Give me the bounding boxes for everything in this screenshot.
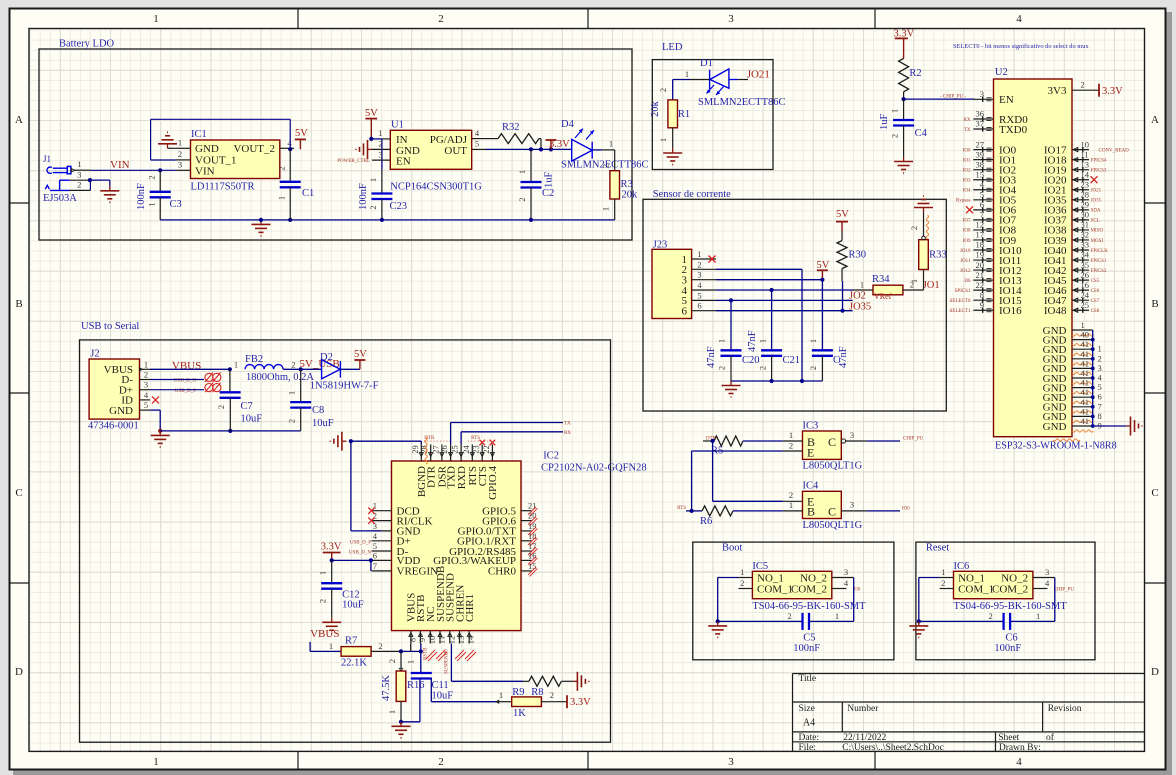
svg-text:1: 1 — [234, 360, 238, 370]
ground in button block — [717, 621, 719, 626]
svg-text:JO1: JO1 — [923, 280, 940, 291]
wire IC4 E cross — [712, 441, 714, 501]
IC2 pin 25 RXD — [460, 444, 462, 461]
svg-text:16: 16 — [1081, 280, 1090, 290]
no-ERC hatch at IC2 CHREN — [455, 650, 466, 661]
svg-text:3: 3 — [1098, 363, 1102, 373]
svg-text:IO10: IO10 — [960, 249, 971, 254]
svg-text:3: 3 — [850, 430, 854, 440]
node C2 rail — [529, 218, 533, 222]
resistor R7 22.1K — [309, 642, 311, 652]
U2 pin 2 3V3 — [1072, 89, 1099, 91]
differential pair marker D+ — [150, 389, 204, 391]
U2 pin 17 IO9 — [973, 239, 993, 241]
U2 pin 25 IO48 — [1072, 309, 1089, 311]
IC1 pin 1 GND — [176, 147, 191, 149]
svg-text:1: 1 — [153, 756, 159, 768]
IC4 pin 2 E — [783, 500, 803, 502]
svg-text:1: 1 — [77, 159, 81, 169]
IC2 pin 7 VREGIN — [372, 570, 392, 572]
svg-text:3: 3 — [728, 13, 734, 25]
ground in button block — [918, 621, 920, 626]
svg-text:COM_2: COM_2 — [992, 584, 1028, 596]
svg-text:4: 4 — [1045, 578, 1050, 588]
svg-text:6: 6 — [373, 550, 377, 560]
svg-text:5V: 5V — [365, 108, 378, 119]
svg-text:2: 2 — [378, 139, 382, 149]
svg-text:10: 10 — [1081, 139, 1090, 149]
svg-text:1: 1 — [697, 249, 701, 259]
svg-text:Drawn By:: Drawn By: — [999, 743, 1041, 753]
IC2 pin 21 GPIO.5 — [521, 510, 532, 512]
svg-text:IO2: IO2 — [963, 168, 971, 173]
J2 pin 5 — [140, 409, 151, 411]
node VOUT_2 — [288, 147, 292, 151]
IC2 pin 24 RTS — [471, 444, 473, 461]
usb ground rail — [160, 430, 301, 432]
svg-text:R6: R6 — [700, 516, 712, 527]
svg-text:C: C — [828, 505, 836, 519]
svg-text:USB_D_N: USB_D_N — [349, 551, 371, 556]
section USB to Serial — [80, 340, 611, 742]
svg-text:2: 2 — [787, 611, 791, 621]
resistor R8 zigzag — [529, 676, 562, 686]
svg-text:38: 38 — [976, 159, 985, 169]
squiggle at R33 pin2 — [926, 215, 928, 239]
svg-text:2: 2 — [438, 756, 444, 768]
svg-text:VOUT_2: VOUT_2 — [233, 143, 275, 155]
switch pin 2 — [940, 588, 954, 590]
svg-text:VIN: VIN — [195, 165, 215, 177]
U2 pin 28 IO35 — [1072, 199, 1089, 201]
svg-text:1: 1 — [609, 139, 613, 149]
U2 pin 38 IO2 — [973, 169, 993, 171]
svg-text:13: 13 — [1081, 159, 1090, 169]
svg-text:D: D — [15, 666, 23, 678]
svg-text:IC4: IC4 — [803, 481, 820, 492]
IC3 pin 1 B — [783, 440, 803, 442]
U1 pin 1 IN — [382, 138, 390, 140]
svg-text:6: 6 — [697, 301, 701, 311]
svg-text:3: 3 — [980, 89, 984, 99]
U2 pin 30 IO37 — [1072, 219, 1089, 221]
wire switch pin1 to ground — [718, 577, 739, 579]
svg-text:FPICLK: FPICLK — [1091, 249, 1109, 254]
capacitor C5 100nF — [801, 613, 803, 630]
no-ERC cross at J23 pin1 — [709, 256, 716, 263]
svg-text:Date:: Date: — [799, 733, 820, 743]
svg-text:3: 3 — [697, 270, 701, 280]
svg-text:1: 1 — [685, 69, 689, 79]
svg-text:R3: R3 — [621, 179, 633, 190]
power port 5V above U1 — [370, 119, 372, 139]
svg-text:3: 3 — [1045, 567, 1049, 577]
svg-text:21: 21 — [528, 501, 537, 511]
svg-text:1: 1 — [909, 279, 919, 283]
svg-text:41: 41 — [1081, 349, 1090, 359]
svg-text:41: 41 — [1081, 406, 1090, 416]
svg-text:2: 2 — [438, 13, 444, 25]
svg-text:CHR1: CHR1 — [464, 594, 476, 622]
svg-text:41: 41 — [1081, 368, 1090, 378]
svg-text:GND: GND — [109, 405, 133, 417]
wire J2 GND down — [150, 409, 160, 411]
power port 5V at D2 — [359, 360, 361, 369]
svg-text:D4: D4 — [561, 119, 575, 130]
svg-text:100nF: 100nF — [136, 183, 147, 210]
svg-text:B: B — [1151, 298, 1158, 310]
node C20 tap — [729, 298, 733, 302]
svg-text:2: 2 — [740, 578, 744, 588]
svg-text:IO11: IO11 — [960, 259, 971, 264]
svg-text:17: 17 — [976, 230, 985, 240]
svg-text:2: 2 — [77, 180, 81, 190]
svg-text:JO21: JO21 — [747, 68, 770, 80]
wire J23 pin6 — [716, 310, 853, 312]
svg-text:COM_1: COM_1 — [958, 584, 994, 596]
svg-text:CS5: CS5 — [1091, 279, 1100, 284]
no-ERC hatch at IC2 NC — [426, 650, 437, 661]
node OUT b — [539, 147, 543, 151]
svg-text:R7: R7 — [345, 636, 357, 647]
wire J23 pin4 to R34 — [716, 289, 853, 291]
U2 pin 31 IO38 — [1072, 229, 1089, 231]
svg-text:IO4: IO4 — [963, 189, 971, 194]
ground below R16 — [400, 722, 402, 727]
svg-text:12: 12 — [446, 636, 456, 645]
svg-text:47346-0001: 47346-0001 — [88, 421, 139, 432]
ground below sensor rail — [730, 381, 732, 386]
svg-text:23: 23 — [471, 445, 481, 454]
node C7 rail — [228, 429, 232, 433]
wire switch pin3 down — [1054, 578, 1056, 622]
svg-text:LED: LED — [662, 42, 683, 53]
node button gnd — [917, 619, 921, 623]
svg-text:1: 1 — [387, 710, 397, 714]
R7 pin 2 wire — [371, 650, 401, 652]
svg-text:IO3: IO3 — [963, 179, 971, 184]
svg-text:10uF: 10uF — [241, 414, 263, 425]
svg-text:RTS: RTS — [677, 506, 686, 511]
capacitor C4 1uF — [903, 99, 905, 120]
IC2 pin 8 VBUS — [410, 631, 412, 644]
svg-text:100nF: 100nF — [793, 643, 820, 654]
ground right of R8 — [573, 680, 578, 682]
svg-text:19: 19 — [528, 521, 537, 531]
wire IC4 C to IO0 — [867, 510, 900, 512]
svg-text:2: 2 — [216, 405, 226, 409]
resistor R30 — [841, 231, 843, 241]
svg-text:2: 2 — [717, 366, 727, 370]
wire R5 to IC3 B — [743, 440, 783, 442]
U2 pin 18 IO10 — [973, 249, 993, 251]
U2 pin 15 IO3 — [973, 179, 993, 181]
svg-text:7: 7 — [1098, 401, 1102, 411]
svg-text:2: 2 — [517, 197, 527, 201]
U2 pin 11 IO18 — [1072, 159, 1089, 161]
wire CHIP_PU to U2 EN — [904, 98, 975, 100]
svg-text:IO1: IO1 — [963, 158, 971, 163]
wire IC3 E to RTS net — [692, 450, 783, 452]
switch pin 3 — [832, 577, 854, 579]
svg-text:USB to Serial: USB to Serial — [81, 321, 139, 332]
IC2 pin 4 D+ — [372, 540, 392, 542]
U2 pin 35 IO42 — [1072, 269, 1089, 271]
switch pin 3 — [1033, 577, 1055, 579]
svg-text:1: 1 — [658, 138, 668, 142]
svg-text:VIN: VIN — [110, 159, 130, 171]
svg-text:1: 1 — [835, 611, 839, 621]
U2 pin 27 IO0 — [973, 149, 993, 151]
svg-text:RX: RX — [964, 118, 971, 123]
wire VBUS J2 to FB2 — [150, 368, 230, 370]
svg-text:JO2: JO2 — [849, 291, 866, 302]
svg-text:2: 2 — [808, 366, 818, 370]
svg-text:COM_1: COM_1 — [757, 584, 793, 596]
IC2 pin 23 CTS — [481, 444, 483, 461]
capacitor C23 100nF — [381, 170, 383, 194]
IC2 pin 9 RSTB — [419, 631, 421, 644]
svg-text:1: 1 — [860, 279, 864, 289]
svg-text:20k: 20k — [622, 190, 639, 201]
IC1 pin 2 VOUT_1 — [176, 159, 191, 161]
svg-text:15: 15 — [528, 561, 537, 571]
capacitor C21 47nF — [771, 290, 773, 350]
svg-text:2: 2 — [789, 440, 793, 450]
svg-text:CP2102N-A02-GQFN28: CP2102N-A02-GQFN28 — [541, 463, 647, 474]
svg-text:A: A — [1151, 114, 1159, 126]
svg-text:IC5: IC5 — [752, 561, 768, 572]
IC2 pin 29 BGND — [420, 444, 422, 461]
wire switch pin1 to ground — [919, 577, 940, 579]
svg-text:FPICS1: FPICS1 — [1091, 259, 1107, 264]
wire C11 bottom to ground — [419, 679, 421, 722]
power port 5V at IC1 output — [299, 139, 301, 149]
svg-text:13: 13 — [456, 636, 466, 645]
U2 GND bus wire — [1092, 330, 1094, 426]
feedback wire VOUT_2 to VOUT_1 — [151, 159, 176, 161]
U2 pin 5 IO5 — [973, 199, 993, 201]
svg-text:Bypass: Bypass — [956, 199, 971, 204]
svg-text:29: 29 — [1081, 200, 1090, 210]
svg-text:Reset: Reset — [926, 543, 949, 554]
no-ERC cross at U2 IO6 — [966, 206, 973, 213]
svg-text:FPICS3: FPICS3 — [1091, 168, 1107, 173]
IC3 pin 2 E — [783, 450, 803, 452]
U2 pin 37 TXD0 — [973, 128, 993, 130]
svg-text:33: 33 — [1081, 240, 1090, 250]
svg-text:41: 41 — [1081, 416, 1090, 426]
svg-text:6: 6 — [682, 306, 688, 318]
node VIN at C3 — [158, 168, 162, 172]
IC2 pin 17 GPIO.2/RS485 — [521, 550, 532, 552]
svg-text:100nF: 100nF — [358, 183, 369, 210]
svg-text:26: 26 — [439, 445, 449, 454]
wire J23 pin3 to 5V — [716, 279, 822, 281]
svg-text:C11: C11 — [432, 680, 449, 691]
svg-text:1: 1 — [147, 202, 157, 206]
svg-text:14: 14 — [466, 635, 476, 644]
svg-text:Sensor de corrente: Sensor de corrente — [653, 189, 731, 200]
svg-text:C3: C3 — [170, 199, 182, 210]
svg-text:1: 1 — [329, 641, 333, 651]
svg-text:4: 4 — [1016, 13, 1022, 25]
IC2 pin 5 D- — [372, 550, 392, 552]
svg-text:E: E — [807, 446, 814, 460]
capacitor row wire — [919, 620, 1004, 622]
svg-text:U1: U1 — [391, 120, 404, 131]
svg-text:1: 1 — [378, 128, 382, 138]
IC2 pin 16 GPIO.3/WAKEUP — [521, 559, 532, 561]
svg-text:R33: R33 — [929, 250, 947, 261]
ground battery rail — [260, 220, 262, 225]
ground below C12 — [331, 618, 333, 623]
capacitor C20 47nF — [730, 300, 732, 350]
svg-text:GND: GND — [1043, 421, 1067, 433]
svg-text:VREGIN: VREGIN — [397, 566, 439, 578]
svg-text:41: 41 — [1081, 387, 1090, 397]
svg-text:EN: EN — [396, 155, 411, 167]
U2 pin 29 IO36 — [1072, 209, 1089, 211]
section LED — [652, 60, 773, 170]
squiggle below U2 — [1053, 439, 1080, 441]
svg-text:VRef: VRef — [874, 292, 892, 301]
svg-text:5V: 5V — [817, 260, 830, 271]
svg-text:EJ503A: EJ503A — [43, 193, 77, 204]
svg-text:D6: D6 — [964, 279, 971, 284]
svg-text:3: 3 — [850, 500, 854, 510]
svg-text:2: 2 — [941, 578, 945, 588]
svg-text:2: 2 — [601, 164, 611, 168]
svg-text:RTS: RTS — [471, 436, 480, 441]
svg-text:24: 24 — [461, 445, 471, 454]
svg-text:2: 2 — [1098, 353, 1102, 363]
svg-text:FPICS2: FPICS2 — [1091, 269, 1107, 274]
svg-text:1N5819HW-7-F: 1N5819HW-7-F — [310, 381, 379, 392]
svg-text:MOSI: MOSI — [1091, 239, 1104, 244]
switch pin 4 — [832, 588, 847, 590]
svg-text:41: 41 — [1081, 397, 1090, 407]
svg-text:C: C — [828, 435, 836, 449]
U2 pin 8 IO15 — [973, 299, 993, 301]
svg-text:3.3V: 3.3V — [549, 139, 570, 150]
power port 5V at sensor — [821, 270, 823, 279]
svg-text:2: 2 — [291, 360, 295, 370]
svg-text:VBUS: VBUS — [172, 360, 201, 372]
svg-text:1K: 1K — [513, 708, 526, 719]
svg-text:10uF: 10uF — [342, 600, 364, 611]
svg-text:26: 26 — [1081, 270, 1090, 280]
svg-text:C23: C23 — [390, 201, 408, 212]
svg-text:C21: C21 — [783, 355, 801, 366]
svg-text:1: 1 — [1098, 344, 1102, 354]
IC2 pin 22 GPIO.4 — [491, 444, 493, 461]
svg-text:CONV_READ: CONV_READ — [1099, 148, 1130, 153]
svg-text:OUT: OUT — [444, 145, 467, 157]
svg-text:2: 2 — [550, 690, 554, 700]
ground at U2 GND bus — [1126, 425, 1131, 427]
svg-text:C: C — [15, 487, 22, 499]
IC2 pin 11 SUSPENDB — [439, 631, 441, 644]
svg-text:3.3V: 3.3V — [321, 541, 342, 552]
svg-text:9: 9 — [980, 300, 984, 310]
no-ERC cross at IC2 DCD — [368, 508, 374, 514]
svg-text:CS6: CS6 — [1091, 289, 1100, 294]
svg-text:COM_2: COM_2 — [791, 584, 827, 596]
svg-text:Boot: Boot — [722, 543, 743, 554]
svg-text:8: 8 — [1098, 411, 1102, 421]
svg-text:47nF: 47nF — [747, 330, 758, 352]
svg-text:10: 10 — [427, 636, 437, 645]
wire RSTB to C11 — [420, 644, 422, 652]
sideways ground at U1 GND — [368, 148, 373, 150]
svg-text:C7: C7 — [241, 401, 253, 412]
U2 pin 23 IO21 — [1072, 189, 1089, 191]
svg-text:IO16: IO16 — [999, 305, 1022, 317]
svg-text:2: 2 — [318, 599, 328, 603]
svg-text:IC6: IC6 — [954, 561, 970, 572]
IC1 pin 4 VOUT_2 — [280, 147, 294, 149]
ground below J2 — [159, 431, 161, 436]
IC2 pin 20 GPIO.6 — [521, 520, 532, 522]
svg-text:1: 1 — [890, 109, 900, 113]
svg-text:R9: R9 — [512, 687, 524, 698]
resistor R2 — [899, 58, 909, 91]
U2 pin 32 IO39 — [1072, 239, 1089, 241]
svg-text:1: 1 — [808, 339, 818, 343]
IC2 pin 1 DCD — [372, 510, 392, 512]
R34 pin2 wire — [903, 289, 924, 291]
J2 pin 4 — [140, 399, 151, 401]
svg-text:41: 41 — [1081, 378, 1090, 388]
node IC4 E tap — [711, 439, 715, 443]
svg-text:3: 3 — [144, 380, 148, 390]
svg-text:1: 1 — [1081, 320, 1085, 330]
U2 pin 16 IO46 — [1072, 289, 1089, 291]
svg-text:22: 22 — [976, 280, 985, 290]
svg-text:2: 2 — [144, 370, 148, 380]
svg-text:TX: TX — [964, 128, 971, 133]
svg-text:R34: R34 — [872, 274, 890, 285]
svg-text:1: 1 — [287, 391, 297, 395]
svg-text:19: 19 — [976, 250, 985, 260]
U2 pin 14 IO20 — [1072, 179, 1089, 181]
U2 pin 7 IO7 — [973, 219, 993, 221]
IC2 pin 28 DTR — [430, 444, 432, 461]
svg-text:TXD0: TXD0 — [999, 124, 1028, 136]
svg-text:41: 41 — [1081, 339, 1090, 349]
svg-text:25: 25 — [450, 445, 460, 454]
node R16 top — [399, 649, 403, 653]
ground below C4 — [903, 157, 905, 162]
svg-text:2: 2 — [147, 175, 157, 179]
svg-text:C2: C2 — [542, 188, 554, 199]
node VDD — [330, 558, 334, 562]
IC4 pin 1 B — [783, 510, 803, 512]
IC2 pin 3 GND — [372, 530, 392, 532]
svg-text:2: 2 — [890, 134, 900, 138]
svg-text:2: 2 — [658, 88, 668, 92]
svg-text:47nF: 47nF — [706, 346, 717, 368]
svg-text:Sheet: Sheet — [998, 733, 1019, 743]
svg-text:L8050QLT1G: L8050QLT1G — [803, 520, 863, 531]
wire GND bus to ground — [1093, 425, 1126, 427]
svg-text:32: 32 — [1081, 230, 1090, 240]
J2 pin 3 — [140, 389, 151, 391]
switch pin 1 — [940, 577, 954, 579]
svg-text:1: 1 — [601, 207, 611, 211]
U2 pin 24 IO47 — [1072, 299, 1089, 301]
